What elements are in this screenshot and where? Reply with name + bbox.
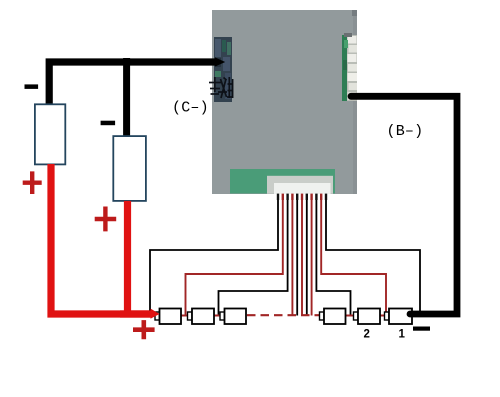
cell R3 <box>320 309 346 325</box>
balance wire 6 red <box>301 200 303 316</box>
balance wire 3 black <box>219 200 288 315</box>
cell L3 <box>220 309 246 325</box>
svg-text:2: 2 <box>364 329 370 341</box>
wire: thick red from B1 to cell row <box>51 164 159 319</box>
BMS board U1 <box>212 10 357 194</box>
plus label at B1 <box>23 171 42 194</box>
balance wire 1 black <box>150 200 278 311</box>
wire: thick black B- wire from board to cell 1 <box>351 96 457 314</box>
connector housing J1 <box>267 176 333 194</box>
wire: thick red from B2 down <box>124 201 131 314</box>
left component strip on board <box>214 37 232 102</box>
green connector base on board <box>230 169 335 194</box>
dashed red omitted-cells line <box>247 314 319 316</box>
balance wire 4 red <box>291 200 293 316</box>
cell link L1-L2 <box>181 315 188 317</box>
wire: black drop to battery B2 <box>123 58 130 137</box>
balance wire 8 red <box>311 200 313 316</box>
balance wire 2 red <box>186 200 283 315</box>
svg-text:(B–): (B–) <box>387 123 424 140</box>
balance wire 9 black <box>316 200 350 315</box>
battery B1 <box>35 104 65 164</box>
battery B2 <box>113 136 146 201</box>
balance wire 11 black <box>326 200 420 311</box>
cell link R2-R1 <box>380 315 385 317</box>
right component strip on board <box>342 33 357 101</box>
wire: thick red arrow tip overlay at cell L1 <box>120 310 152 317</box>
wire: thick black C- wire from batteries to board <box>49 57 225 104</box>
watermark glyph strokes on board <box>209 77 233 98</box>
minus label at B1 <box>25 84 39 89</box>
svg-text:1: 1 <box>399 329 406 341</box>
balance wire 7 black <box>306 200 308 316</box>
minus label at B2 <box>101 121 116 126</box>
balance wire 10 red <box>321 200 386 315</box>
balance wire 5 black <box>296 200 298 316</box>
cell L1 <box>155 309 181 325</box>
plus label at B2 <box>95 207 117 232</box>
cell link R3-R2 <box>346 315 354 317</box>
plus label at cell row <box>133 320 155 339</box>
connector pins <box>277 194 327 200</box>
cell link L2-L3 <box>214 315 221 317</box>
svg-text:(C–): (C–) <box>172 100 209 117</box>
cell R2 <box>354 309 381 325</box>
cell L2 <box>188 309 215 325</box>
minus label at B- terminal <box>413 327 430 331</box>
cell R1 <box>385 309 413 325</box>
